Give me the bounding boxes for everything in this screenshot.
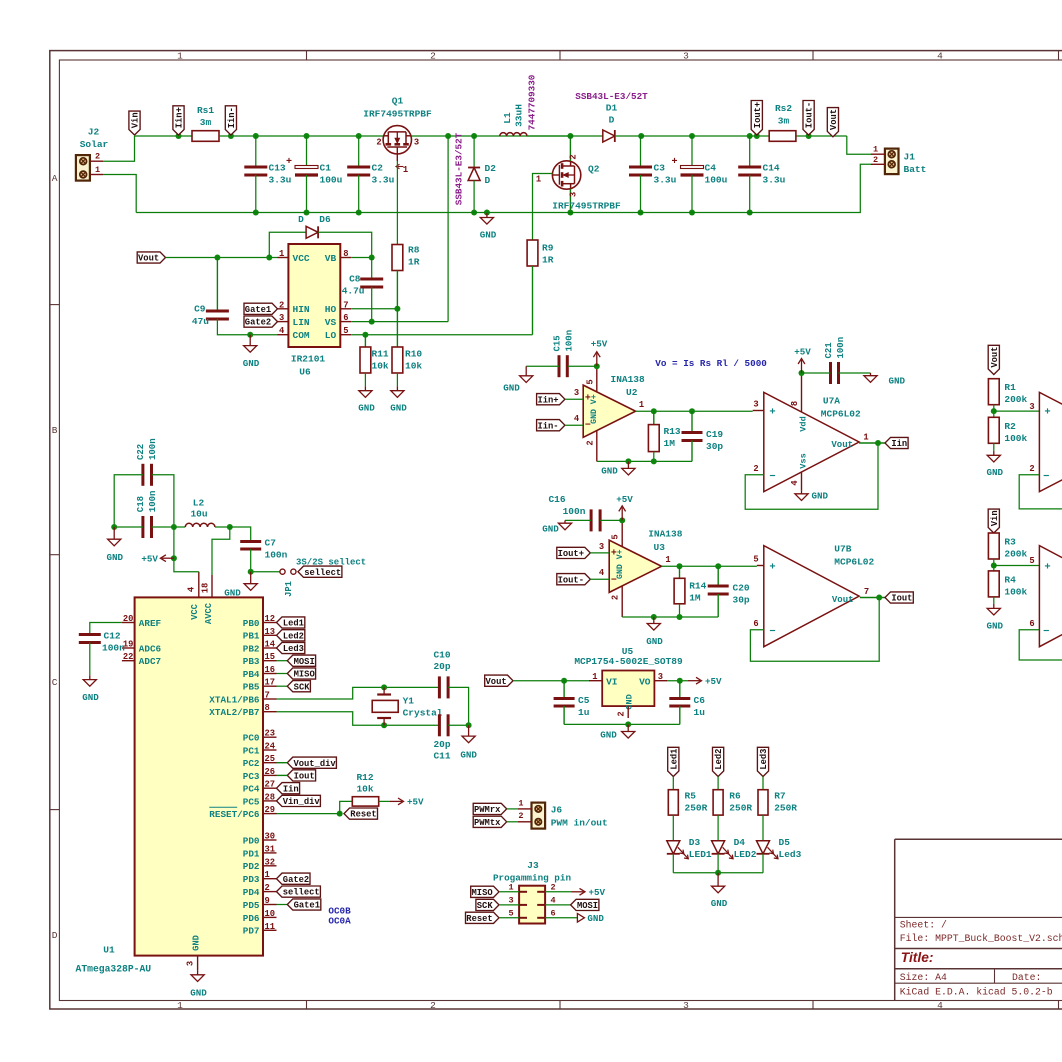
junction U5 gnd <box>625 721 631 727</box>
op-amp U7A MCP6L02 <box>764 392 861 491</box>
junction C1 top <box>304 133 310 139</box>
svg-text:1: 1 <box>873 145 878 155</box>
svg-text:4: 4 <box>790 480 800 486</box>
title block <box>895 839 1062 1000</box>
svg-text:PB5: PB5 <box>243 682 260 693</box>
svg-text:PC0: PC0 <box>243 733 260 744</box>
svg-text:4: 4 <box>550 895 555 905</box>
svg-text:Title:: Title: <box>901 950 934 965</box>
wire RESET to junction <box>277 813 340 815</box>
wire Led2 to resistor <box>717 777 719 790</box>
power GND at C16 <box>542 520 571 534</box>
svg-text:PC2: PC2 <box>243 758 260 769</box>
capacitor C15 100n <box>552 330 574 377</box>
power GND main rail <box>480 213 497 241</box>
svg-text:25: 25 <box>265 754 276 764</box>
U8B pin6 feedback <box>1019 619 1062 660</box>
svg-text:File: MPPT_Buck_Boost_V2.sch: File: MPPT_Buck_Boost_V2.sch <box>900 933 1062 944</box>
svg-text:Vout: Vout <box>829 109 839 130</box>
svg-text:PC5: PC5 <box>243 796 260 807</box>
global label MOSI at PB3 <box>287 655 315 667</box>
global label Iout at PC3 <box>277 770 316 782</box>
svg-text:R4: R4 <box>1004 575 1016 586</box>
svg-text:R5: R5 <box>685 791 697 802</box>
wire PB5 <box>277 685 288 687</box>
global label Vin_div at PC5 <box>277 795 321 807</box>
wire VO to +5V <box>667 680 688 682</box>
svg-text:Led3: Led3 <box>779 849 802 860</box>
svg-text:C21: C21 <box>824 342 834 359</box>
U7B pin5 wire <box>753 555 763 566</box>
capacitor C7 100n <box>240 538 287 561</box>
svg-text:8: 8 <box>790 401 800 406</box>
svg-text:INA138: INA138 <box>648 529 683 540</box>
power GND at C15 <box>503 366 533 393</box>
svg-text:1u: 1u <box>694 707 706 718</box>
svg-text:1: 1 <box>508 882 513 892</box>
svg-text:PC4: PC4 <box>243 784 260 795</box>
svg-text:PD4: PD4 <box>243 887 260 898</box>
svg-text:C5: C5 <box>578 695 590 706</box>
capacitor C11 20p <box>433 714 450 761</box>
svg-text:Vdd: Vdd <box>799 416 809 431</box>
wire J3 pin6 <box>545 917 577 919</box>
svg-text:PB3: PB3 <box>243 656 260 667</box>
resistor Rs2 <box>769 103 796 141</box>
junction C13 bottom <box>253 210 259 216</box>
svg-text:Vout: Vout <box>832 595 854 605</box>
global label Iout- <box>803 101 815 136</box>
global label Reset at R12 <box>344 808 378 820</box>
svg-text:PB0: PB0 <box>243 618 260 629</box>
wire C13 bottom <box>255 175 257 213</box>
LED D4 LED2 <box>712 837 757 860</box>
svg-text:ADC7: ADC7 <box>139 656 161 667</box>
junction GND stub on rail <box>484 210 490 216</box>
U1 pin3 GND <box>186 956 198 971</box>
global label Vout at U6 <box>137 252 165 264</box>
capacitor C8 4.7u <box>342 274 384 297</box>
wire J2 pin1 to GND rail <box>103 175 136 213</box>
global label Iin+ at U2 <box>537 394 565 406</box>
svg-text:R8: R8 <box>408 245 420 256</box>
svg-text:3m: 3m <box>778 116 790 127</box>
inductor L2 10u <box>185 498 215 528</box>
svg-text:COM: COM <box>293 330 310 341</box>
svg-text:100n: 100n <box>563 506 586 517</box>
svg-text:23: 23 <box>265 729 276 739</box>
svg-text:VCC: VCC <box>293 253 310 264</box>
svg-text:+5V: +5V <box>591 339 608 350</box>
wire VS net vertical <box>447 136 449 322</box>
junction U3 gnd tap <box>651 614 657 620</box>
svg-text:MISO: MISO <box>294 670 315 680</box>
svg-text:12: 12 <box>265 614 276 624</box>
svg-text:VB: VB <box>325 253 337 264</box>
global label MISO at PB4 <box>287 668 315 680</box>
svg-text:2: 2 <box>585 440 595 445</box>
svg-text:XTAL1/PB6: XTAL1/PB6 <box>209 694 260 705</box>
svg-text:C19: C19 <box>706 429 723 440</box>
svg-text:1M: 1M <box>664 438 676 449</box>
svg-text:C15: C15 <box>552 335 562 351</box>
svg-text:Crystal: Crystal <box>403 708 443 719</box>
wire L1 to Q2 drain node <box>527 135 570 137</box>
capacitor C9 47u <box>192 258 229 328</box>
svg-text:5: 5 <box>508 908 513 918</box>
svg-text:6: 6 <box>550 908 555 918</box>
wire Vout to VI <box>513 680 589 682</box>
wire C13 top <box>255 136 257 167</box>
power GND at COM <box>243 335 260 369</box>
svg-text:28: 28 <box>265 792 276 802</box>
junction U7A +5V <box>799 370 805 376</box>
svg-text:1M: 1M <box>689 593 701 604</box>
svg-text:ATmega328P-AU: ATmega328P-AU <box>76 964 152 975</box>
U8A pin2 feedback <box>1019 464 1062 509</box>
capacitor C3 <box>629 163 677 186</box>
svg-text:MCP1754-5002E_SOT89: MCP1754-5002E_SOT89 <box>574 656 683 667</box>
svg-text:C7: C7 <box>265 538 277 549</box>
junction C14 top <box>747 133 753 139</box>
wire R4 to GND <box>993 597 995 604</box>
junction U2 +5V node <box>594 363 600 369</box>
power GND at C7 <box>224 572 257 599</box>
wire D5 to LED <box>762 815 764 841</box>
global label Iin+ <box>173 106 185 135</box>
svg-text:4: 4 <box>599 568 605 578</box>
power GND below U2 <box>601 461 635 476</box>
wire R3-R4 <box>993 559 995 571</box>
junction U7B output <box>876 595 882 601</box>
capacitor C12 100n <box>79 631 125 654</box>
resistor R5 250R <box>668 790 707 815</box>
svg-text:U7A: U7A <box>823 396 840 407</box>
junction R13 bottom <box>651 458 657 464</box>
svg-text:Gate1: Gate1 <box>294 901 320 911</box>
svg-text:C2: C2 <box>372 163 384 174</box>
svg-text:3: 3 <box>683 51 689 62</box>
junction U3 +5V node <box>619 517 625 523</box>
wire U3 output <box>662 555 757 566</box>
svg-text:+: + <box>1044 407 1050 419</box>
U7A Vdd pin8 <box>790 373 809 432</box>
svg-text:5: 5 <box>343 326 348 336</box>
wire D3 cathode <box>672 854 674 873</box>
power +5V at R12 <box>390 797 424 808</box>
svg-text:Vin: Vin <box>990 510 1000 526</box>
capacitor C21 100n <box>824 337 846 384</box>
wire C7 to JP1 <box>251 549 280 572</box>
junction C1 bottom <box>304 210 310 216</box>
svg-text:GND: GND <box>107 552 124 563</box>
wire Iin- to pin4 <box>565 414 583 425</box>
power GND below C12 <box>82 675 99 703</box>
svg-text:7: 7 <box>265 691 270 701</box>
svg-text:1: 1 <box>639 400 644 410</box>
svg-text:29: 29 <box>265 805 276 815</box>
svg-text:2: 2 <box>569 154 579 159</box>
svg-text:Reset: Reset <box>350 810 376 820</box>
svg-text:Vout: Vout <box>831 440 853 450</box>
global label Iout- at U3 <box>557 574 591 586</box>
svg-text:GND: GND <box>600 730 617 741</box>
svg-text:PB2: PB2 <box>243 643 260 654</box>
svg-text:Vout: Vout <box>138 254 159 264</box>
resistor R13 1M <box>648 411 681 451</box>
svg-text:250R: 250R <box>685 803 708 814</box>
svg-text:8: 8 <box>343 249 348 259</box>
svg-text:PB1: PB1 <box>243 631 260 642</box>
svg-text:Gate2: Gate2 <box>283 875 309 885</box>
svg-text:C1: C1 <box>320 163 332 174</box>
junction VS at C8 <box>369 319 375 325</box>
svg-text:KiCad E.D.A. kicad 5.0.2-b: KiCad E.D.A. kicad 5.0.2-b <box>900 986 1053 997</box>
svg-text:Sheet: /: Sheet: / <box>900 920 947 931</box>
global label Gate1 at PD5 <box>287 899 321 911</box>
power GND at LEDs <box>711 873 728 909</box>
capacitor C20 30p <box>708 566 750 617</box>
svg-text:PD6: PD6 <box>243 913 260 924</box>
svg-text:2: 2 <box>617 711 627 716</box>
svg-text:PWM in/out: PWM in/out <box>551 817 608 828</box>
svg-text:Iout+: Iout+ <box>558 549 584 559</box>
junction R14 bottom <box>677 614 683 620</box>
U7A Vss pin4 <box>790 453 809 490</box>
svg-text:100n: 100n <box>148 491 158 513</box>
power GND below R2 <box>987 451 1004 478</box>
svg-text:D: D <box>609 115 615 126</box>
svg-text:−: − <box>769 471 775 483</box>
wire GND bottom rail <box>136 212 750 214</box>
wire U5 gnd bottom <box>564 723 680 725</box>
diode D1 SSB43L-E3/52T <box>570 91 648 142</box>
svg-text:C18: C18 <box>136 496 146 512</box>
junction L2 out <box>227 524 233 530</box>
svg-text:PD2: PD2 <box>243 861 260 872</box>
svg-text:J6: J6 <box>551 804 563 815</box>
svg-text:17: 17 <box>265 678 276 688</box>
wire D4 cathode <box>717 854 719 873</box>
svg-text:−: − <box>1043 471 1049 483</box>
svg-text:IRF7495TRPBF: IRF7495TRPBF <box>363 109 432 120</box>
svg-text:3.3u: 3.3u <box>654 175 677 186</box>
svg-text:Iin+: Iin+ <box>175 107 185 128</box>
junction R14 top <box>677 563 683 569</box>
wire R10 to GND <box>396 373 398 386</box>
svg-text:Iin-: Iin- <box>227 107 237 128</box>
resistor R4 100k <box>988 571 1027 598</box>
svg-text:C22: C22 <box>136 444 146 460</box>
power GND below R4 <box>987 604 1004 632</box>
svg-text:22: 22 <box>123 652 134 662</box>
transistor Q1 IRF7495TRPBF <box>363 96 432 176</box>
junction HO node <box>394 306 400 312</box>
junction Y1 bottom <box>381 722 387 728</box>
junction Vout divider <box>991 408 997 414</box>
junction C19 top <box>689 408 695 414</box>
junction Q2 drain node <box>567 133 573 139</box>
global label MOSI at J3 <box>571 899 599 911</box>
svg-text:GND: GND <box>480 230 497 241</box>
global label Vout_div at PC2 <box>277 757 337 769</box>
svg-text:2: 2 <box>1029 464 1034 474</box>
svg-text:PD3: PD3 <box>243 874 260 885</box>
global label Iin- <box>225 106 237 135</box>
U1 pin18 AVCC <box>201 575 213 597</box>
capacitor C10 20p <box>433 650 450 699</box>
svg-text:SCK: SCK <box>477 901 494 911</box>
svg-text:LED2: LED2 <box>734 849 757 860</box>
svg-text:2: 2 <box>430 1000 436 1011</box>
svg-text:2: 2 <box>265 883 270 893</box>
resistor R8 1R <box>392 245 420 309</box>
svg-text:L2: L2 <box>193 498 205 509</box>
junction D2 top <box>471 133 477 139</box>
svg-text:1: 1 <box>592 672 597 682</box>
resistor R3 200k <box>988 533 1027 560</box>
power +5V at J3 <box>572 887 606 898</box>
U1 pin4 VCC <box>187 572 199 598</box>
LED D5 Led3 <box>757 837 802 860</box>
U8B pin5 label <box>1029 556 1034 566</box>
svg-text:20p: 20p <box>433 739 450 750</box>
svg-text:Iin: Iin <box>283 784 299 794</box>
svg-text:R10: R10 <box>405 349 422 360</box>
svg-text:100n: 100n <box>148 438 158 460</box>
connector J6 PWM in/out <box>507 798 608 828</box>
svg-text:D1: D1 <box>606 103 618 114</box>
svg-text:GND: GND <box>192 935 202 951</box>
global label Vin <box>129 111 141 135</box>
svg-text:Rs1: Rs1 <box>197 105 214 116</box>
svg-text:+5V: +5V <box>589 887 606 898</box>
junction Q2 source on rail <box>567 210 573 216</box>
svg-text:+: + <box>769 407 775 419</box>
svg-text:GND: GND <box>711 898 728 909</box>
svg-text:R2: R2 <box>1004 421 1016 432</box>
wire C3 bottom <box>640 175 642 213</box>
svg-text:GND: GND <box>460 750 477 761</box>
svg-text:GND: GND <box>190 988 207 999</box>
svg-text:C10: C10 <box>433 650 450 661</box>
svg-text:2: 2 <box>753 464 758 474</box>
svg-text:+5V: +5V <box>705 676 722 687</box>
svg-text:1: 1 <box>665 555 670 565</box>
capacitor C6 1u <box>669 681 705 725</box>
svg-text:PD5: PD5 <box>243 900 260 911</box>
svg-text:31: 31 <box>265 844 276 854</box>
svg-text:1: 1 <box>536 175 541 185</box>
wire HO to gate node <box>351 308 397 310</box>
svg-text:MCP6L02: MCP6L02 <box>821 409 861 420</box>
svg-text:LED1: LED1 <box>689 849 712 860</box>
wire Led3 to resistor <box>762 777 764 790</box>
junction Iin+ node <box>176 133 182 139</box>
resistor R2 100k <box>988 417 1027 444</box>
svg-text:Iin: Iin <box>891 439 907 449</box>
wire +5V to C21 <box>802 372 831 374</box>
svg-text:100n: 100n <box>102 643 125 654</box>
svg-text:2: 2 <box>430 51 436 62</box>
wire J3 pin5 <box>499 917 519 919</box>
svg-text:R3: R3 <box>1004 537 1016 548</box>
svg-text:PWMrx: PWMrx <box>474 805 501 815</box>
wire U2 bottom gnd line <box>597 460 692 462</box>
svg-text:GND: GND <box>987 621 1004 632</box>
svg-text:1: 1 <box>95 165 100 175</box>
power +5V at U2 <box>591 339 608 367</box>
svg-text:JP1: JP1 <box>284 581 294 597</box>
svg-text:250R: 250R <box>774 803 797 814</box>
svg-text:GND V+: GND V+ <box>616 549 625 579</box>
svg-text:Progamming pin: Progamming pin <box>493 873 572 884</box>
svg-text:R13: R13 <box>664 426 681 437</box>
wire C16 right <box>600 519 622 521</box>
svg-text:GND: GND <box>224 588 241 599</box>
global label Led1 vertical <box>668 747 680 776</box>
capacitor C22 100n <box>136 438 158 485</box>
svg-text:B: B <box>52 425 58 436</box>
svg-text:4.7u: 4.7u <box>342 286 365 297</box>
power +5V at U5 <box>688 676 722 687</box>
svg-text:Led3: Led3 <box>759 749 769 770</box>
power GND at U7A Vss <box>795 491 829 502</box>
svg-text:16: 16 <box>265 665 276 675</box>
svg-text:20: 20 <box>123 614 134 624</box>
wire C18 left <box>114 526 143 528</box>
svg-text:U6: U6 <box>299 367 311 378</box>
svg-text:47u: 47u <box>192 316 209 327</box>
svg-text:Vout: Vout <box>990 347 1000 368</box>
svg-text:IRF7495TRPBF: IRF7495TRPBF <box>552 201 621 212</box>
svg-text:3: 3 <box>279 313 284 323</box>
svg-text:10: 10 <box>265 909 276 919</box>
junction C2 top <box>356 133 362 139</box>
svg-text:XTAL2/PB7: XTAL2/PB7 <box>209 707 259 718</box>
svg-text:LIN: LIN <box>293 317 310 328</box>
svg-text:5: 5 <box>753 555 758 565</box>
capacitor C14 <box>738 163 785 186</box>
junction C9 tap <box>214 255 220 261</box>
global label Led3 vertical <box>757 747 769 776</box>
resistor Rs1 <box>192 105 219 141</box>
svg-text:13: 13 <box>265 627 276 637</box>
wire R12 left <box>340 801 353 813</box>
junction U2 gnd tap <box>625 458 631 464</box>
wire C10 right <box>448 687 469 725</box>
svg-text:200k: 200k <box>1004 549 1027 560</box>
junction C4 top <box>689 133 695 139</box>
svg-text:Date:: Date: <box>1012 972 1041 983</box>
resistor R7 250R <box>758 790 797 815</box>
svg-text:SSB43L-E3/52T: SSB43L-E3/52T <box>575 91 648 102</box>
global label Iout+ at U3 <box>557 547 591 559</box>
U3 pin2 stub <box>611 586 623 618</box>
svg-text:3: 3 <box>1029 402 1034 412</box>
junction R11 tap <box>362 332 368 338</box>
wire C22 left <box>114 475 143 527</box>
svg-text:3: 3 <box>658 672 663 682</box>
global label PWMrx <box>473 803 507 815</box>
wire C14 top <box>749 136 751 167</box>
global label MISO at J3 <box>471 886 499 898</box>
wire J2 pin2 to Vin rail <box>103 136 135 161</box>
wire J1 pin2 to GND rail <box>750 164 871 212</box>
svg-text:Iout: Iout <box>294 772 315 782</box>
svg-text:U3: U3 <box>654 542 666 553</box>
U7A pin3 wire <box>753 400 764 411</box>
